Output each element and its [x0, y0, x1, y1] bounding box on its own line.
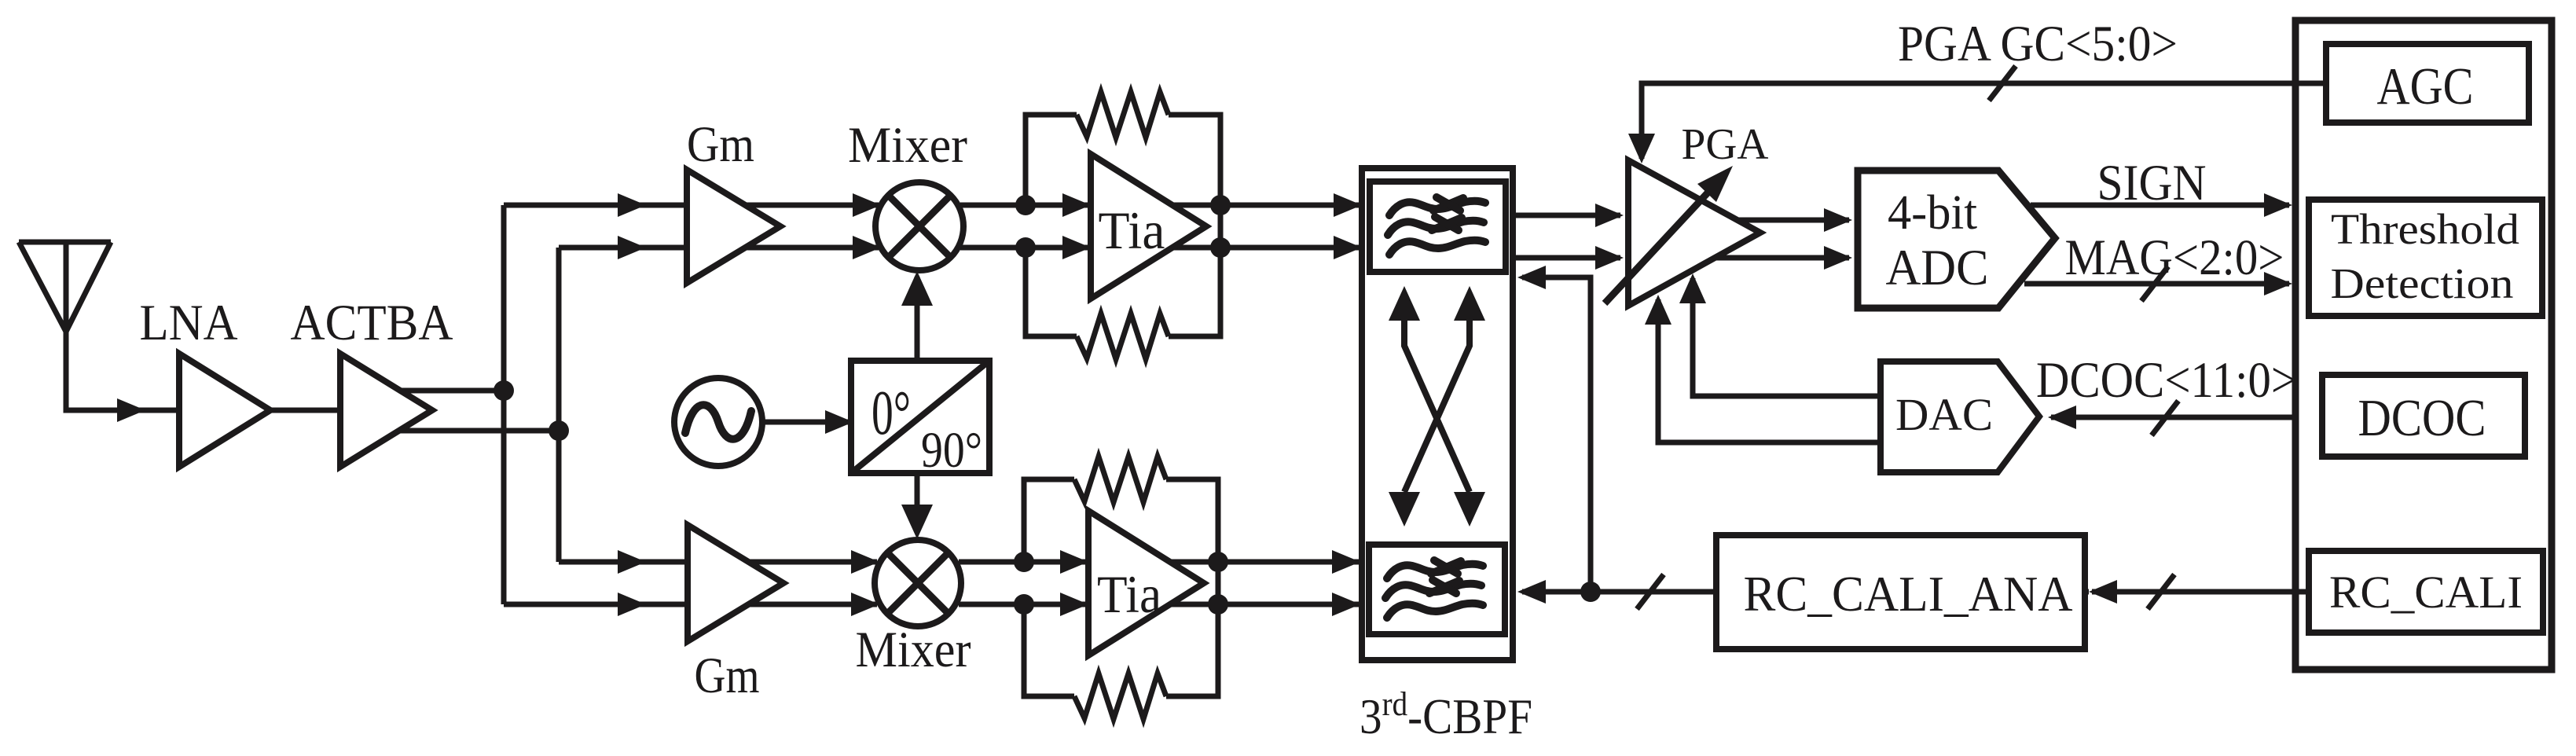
- svg-text:ADC: ADC: [1886, 240, 1989, 296]
- svg-text:Gm: Gm: [687, 116, 754, 173]
- svg-text:DCOC: DCOC: [2358, 389, 2486, 447]
- svg-text:Mixer: Mixer: [856, 622, 971, 678]
- svg-text:RC_CALI: RC_CALI: [2329, 567, 2523, 618]
- svg-text:RC_CALI_ANA: RC_CALI_ANA: [1744, 566, 2073, 622]
- svg-text:Tia: Tia: [1097, 564, 1161, 624]
- svg-text:DCOC<11:0>: DCOC<11:0>: [2036, 352, 2297, 409]
- svg-text:3rd-CBPF: 3rd-CBPF: [1360, 686, 1532, 744]
- svg-text:Gm: Gm: [695, 648, 760, 704]
- svg-text:SIGN: SIGN: [2097, 155, 2207, 211]
- svg-text:90°: 90°: [921, 422, 982, 479]
- svg-text:AGC: AGC: [2377, 57, 2474, 116]
- svg-text:0°: 0°: [872, 377, 911, 448]
- svg-text:LNA: LNA: [140, 295, 238, 351]
- svg-text:PGA GC<5:0>: PGA GC<5:0>: [1898, 16, 2178, 72]
- svg-text:ACTBA: ACTBA: [291, 295, 453, 351]
- svg-text:Threshold: Threshold: [2331, 205, 2519, 253]
- svg-text:Mixer: Mixer: [848, 117, 967, 174]
- svg-text:Tia: Tia: [1099, 200, 1165, 260]
- svg-text:MAG<2:0>: MAG<2:0>: [2065, 229, 2284, 286]
- svg-text:DAC: DAC: [1895, 389, 1993, 440]
- svg-text:Detection: Detection: [2331, 259, 2514, 307]
- svg-text:PGA: PGA: [1682, 120, 1770, 169]
- svg-text:4-bit: 4-bit: [1888, 186, 1977, 240]
